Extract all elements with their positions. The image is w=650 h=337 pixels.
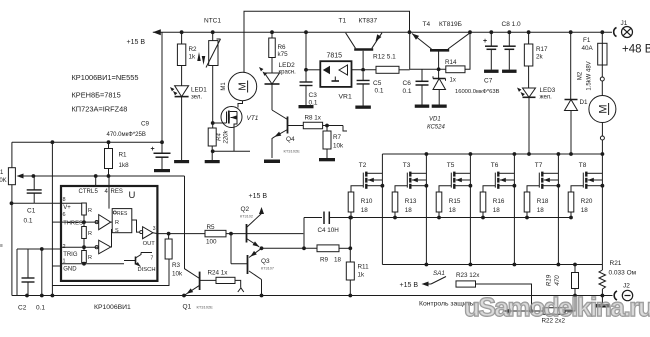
svg-text:R16: R16 — [493, 198, 505, 205]
svg-text:КТ819Б: КТ819Б — [439, 21, 462, 28]
svg-text:LED2: LED2 — [279, 62, 296, 69]
svg-text:КТ3107: КТ3107 — [261, 267, 274, 271]
svg-text:2k: 2k — [536, 54, 544, 61]
svg-text:R: R — [115, 220, 119, 226]
svg-text:R3: R3 — [172, 262, 181, 269]
svg-text:S: S — [115, 228, 119, 234]
svg-text:КТ3102: КТ3102 — [240, 215, 253, 219]
svg-text:OUT: OUT — [143, 241, 156, 247]
svg-text:0.1: 0.1 — [309, 100, 318, 107]
svg-text:1k: 1k — [358, 272, 366, 279]
svg-text:R7: R7 — [333, 134, 342, 141]
svg-text:зел.: зел. — [191, 95, 202, 101]
svg-text:18: 18 — [334, 257, 342, 264]
svg-text:КР1006ВИ1=NE555: КР1006ВИ1=NE555 — [72, 73, 139, 82]
svg-text:R2: R2 — [189, 46, 198, 53]
svg-text:SA1: SA1 — [433, 270, 445, 277]
svg-text:0.1: 0.1 — [403, 88, 412, 95]
svg-text:LED3: LED3 — [540, 87, 556, 94]
svg-text:R1: R1 — [119, 152, 128, 159]
svg-text:R17: R17 — [536, 46, 548, 53]
svg-text:+15 В: +15 В — [127, 39, 146, 46]
svg-text:100: 100 — [206, 239, 217, 246]
svg-text:7815: 7815 — [327, 53, 343, 60]
svg-text:CTRL: CTRL — [79, 189, 95, 195]
svg-text:18: 18 — [405, 207, 413, 214]
svg-text:VD1: VD1 — [429, 117, 441, 123]
svg-text:D1: D1 — [580, 99, 589, 106]
svg-text:Q2: Q2 — [241, 206, 250, 213]
svg-text:1.5kW 48V: 1.5kW 48V — [587, 61, 593, 90]
svg-text:R14: R14 — [445, 59, 457, 66]
svg-text:C4 10H: C4 10H — [318, 227, 340, 234]
svg-text:10k: 10k — [333, 143, 344, 150]
svg-text:T2: T2 — [359, 162, 367, 169]
svg-text:R11: R11 — [358, 264, 370, 271]
svg-text:Q1: Q1 — [183, 304, 192, 311]
svg-text:R6: R6 — [278, 44, 287, 51]
svg-text:1x: 1x — [450, 78, 456, 84]
svg-text:TRIG: TRIG — [63, 252, 78, 258]
svg-text:F1: F1 — [583, 37, 591, 44]
svg-text:470: 470 — [554, 275, 561, 286]
svg-text:C9: C9 — [141, 121, 150, 128]
svg-text:КТ3102Е: КТ3102Е — [197, 305, 214, 310]
svg-text:RES: RES — [117, 211, 128, 217]
svg-text:C2: C2 — [18, 305, 27, 312]
svg-text:GND: GND — [63, 267, 77, 273]
svg-text:R13: R13 — [405, 198, 417, 205]
svg-text:+: + — [151, 146, 155, 153]
svg-text:16000.0мкФ*63В: 16000.0мкФ*63В — [455, 89, 500, 95]
svg-text:VR1: VR1 — [339, 94, 352, 101]
svg-text:R24 1x: R24 1x — [208, 270, 229, 277]
svg-text:жел.: жел. — [540, 95, 553, 101]
svg-text:VT1: VT1 — [247, 115, 259, 122]
svg-text:R12 5.1: R12 5.1 — [373, 54, 396, 61]
svg-text:Q4: Q4 — [286, 136, 295, 143]
svg-text:Q3: Q3 — [261, 258, 270, 265]
svg-text:T6: T6 — [491, 162, 499, 169]
svg-text:1k8: 1k8 — [119, 162, 130, 169]
svg-text:КП723А=IRFZ48: КП723А=IRFZ48 — [72, 105, 128, 114]
svg-text:C7: C7 — [484, 78, 493, 85]
svg-text:DISCH: DISCH — [138, 267, 156, 273]
svg-text:470.0мкФ*25В: 470.0мкФ*25В — [107, 132, 146, 138]
svg-text:красн.: красн. — [279, 70, 297, 76]
svg-text:18: 18 — [537, 207, 545, 214]
svg-text:+15 В: +15 В — [400, 282, 419, 289]
svg-text:R9: R9 — [320, 257, 329, 264]
svg-text:T8: T8 — [579, 162, 587, 169]
svg-text:18: 18 — [449, 207, 457, 214]
svg-text:0.1: 0.1 — [375, 88, 384, 95]
svg-text:R23 12x: R23 12x — [456, 272, 480, 279]
svg-text:R: R — [88, 231, 92, 237]
svg-text:T1: T1 — [339, 18, 347, 25]
svg-text:M: M — [238, 82, 249, 90]
svg-text:RES: RES — [111, 189, 123, 195]
svg-text:КС524: КС524 — [427, 125, 445, 131]
svg-text:R19: R19 — [546, 274, 553, 286]
svg-text:1k: 1k — [189, 54, 197, 61]
svg-text:КРЕН8Б=7815: КРЕН8Б=7815 — [72, 91, 121, 100]
svg-text:C6: C6 — [403, 80, 412, 87]
svg-text:+: + — [483, 38, 487, 45]
svg-text:КТ3102Е: КТ3102Е — [284, 149, 301, 154]
svg-text:R18: R18 — [537, 198, 549, 205]
svg-text:R21: R21 — [610, 260, 622, 267]
svg-text:18: 18 — [581, 207, 589, 214]
svg-text:R15: R15 — [449, 198, 461, 205]
svg-text:M2: M2 — [578, 71, 584, 80]
svg-text:40A: 40A — [582, 45, 594, 52]
svg-text:0.1: 0.1 — [24, 218, 33, 225]
svg-text:M1: M1 — [221, 82, 227, 91]
svg-text:C3: C3 — [309, 92, 318, 99]
svg-text:≡: ≡ — [0, 243, 3, 249]
svg-text:10K: 10K — [0, 178, 7, 184]
svg-text:T3: T3 — [403, 162, 411, 169]
svg-text:T5: T5 — [447, 162, 455, 169]
svg-text:8: 8 — [63, 197, 66, 203]
svg-text:КТ837: КТ837 — [359, 18, 378, 25]
svg-text:THRES: THRES — [63, 221, 83, 227]
svg-text:uSamodelkina.ru: uSamodelkina.ru — [464, 292, 650, 322]
svg-text:NTC1: NTC1 — [204, 18, 221, 25]
svg-text:J2: J2 — [623, 283, 630, 290]
svg-text:R8 1x: R8 1x — [305, 115, 322, 122]
svg-text:C8 1.0: C8 1.0 — [502, 21, 522, 28]
svg-text:КР1006ВИ1: КР1006ВИ1 — [94, 304, 131, 311]
svg-text:R4: R4 — [217, 133, 223, 141]
svg-text:C1: C1 — [27, 208, 36, 215]
svg-text:T4: T4 — [423, 21, 431, 28]
svg-text:10k: 10k — [172, 271, 183, 278]
svg-text:R10: R10 — [361, 198, 373, 205]
svg-text:6: 6 — [63, 212, 66, 218]
svg-text:T7: T7 — [535, 162, 543, 169]
svg-text:R20: R20 — [581, 198, 593, 205]
svg-text:k75: k75 — [278, 51, 289, 58]
svg-text:V+: V+ — [63, 205, 71, 211]
svg-text:7: 7 — [151, 256, 154, 262]
svg-text:R: R — [88, 255, 92, 261]
svg-text:3: 3 — [153, 226, 156, 232]
svg-text:+48 В: +48 В — [622, 44, 650, 56]
svg-text:R: R — [88, 208, 92, 214]
svg-text:M: M — [598, 104, 610, 113]
svg-text:220k: 220k — [224, 129, 230, 144]
svg-text:C5: C5 — [373, 80, 382, 87]
svg-text:18: 18 — [361, 207, 369, 214]
svg-text:18: 18 — [493, 207, 501, 214]
svg-text:R5: R5 — [207, 224, 216, 231]
svg-text:0.033 Ом: 0.033 Ом — [609, 270, 637, 277]
svg-text:+15 В: +15 В — [249, 193, 268, 200]
svg-text:0.1: 0.1 — [36, 305, 45, 312]
svg-text:U: U — [129, 190, 136, 201]
svg-text:LED1: LED1 — [191, 87, 207, 94]
